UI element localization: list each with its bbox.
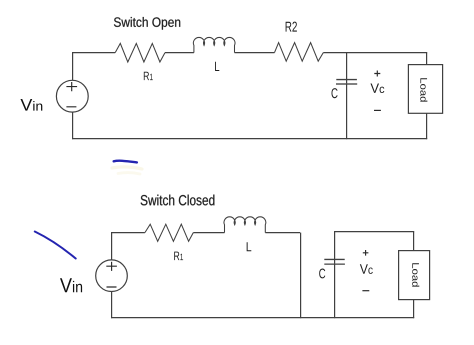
label R1 (bottom): [174, 252, 183, 261]
capacitor C (top): [336, 80, 357, 84]
wire: load bottom to rail (bottom): [413, 300, 415, 319]
inductor L (top): [193, 37, 235, 52]
plus sign Vc (bottom): [363, 250, 369, 256]
wire: L to R2 (top): [235, 52, 275, 54]
blue pen dash: [114, 161, 137, 163]
label Vin (bottom): [60, 278, 82, 292]
wire: corner down to load top (top): [426, 53, 428, 65]
wire: closed-switch branch down to rail (bottom): [300, 233, 302, 319]
wire: loop right down to load top (bottom): [413, 232, 415, 251]
label "Switch Open": [114, 17, 180, 30]
wire: node down through capacitor (top): [346, 53, 348, 85]
wire: capacitor bottom to rail (bottom): [334, 264, 336, 319]
wire: bottom rail (top circuit): [72, 138, 427, 140]
load box (top): [408, 65, 442, 114]
label C (top): [331, 88, 337, 98]
wire: source top to R1 (top): [73, 53, 116, 81]
capacitor C (bottom): [324, 259, 345, 264]
wire: corner to R1 (bottom): [112, 233, 145, 260]
minus sign Vc (top): [374, 109, 381, 111]
wire: bottom rail (bottom circuit): [111, 317, 414, 319]
wire: capacitor up to loop top (bottom): [334, 232, 336, 265]
label Vin (top): [20, 99, 42, 111]
wire: R1 to L (bottom): [193, 232, 224, 234]
inductor L (bottom): [224, 217, 266, 233]
label Vc (top): [370, 84, 384, 94]
label C (bottom): [319, 269, 325, 279]
wire: source bottom to rail (bottom): [111, 292, 113, 319]
wire: load bottom to rail (top): [426, 113, 428, 139]
wire: L to right corner (bottom): [265, 232, 300, 234]
wire: loop top (bottom): [334, 231, 414, 233]
wire: R2 to top-right corner: [323, 52, 427, 54]
faint yellow smudge: [112, 167, 142, 174]
label R1 (top): [144, 72, 153, 80]
resistor R2 (top): [275, 43, 324, 62]
voltage source Vin (bottom): [96, 260, 128, 292]
minus sign Vc (bottom): [362, 290, 369, 292]
wire: capacitor bottom to rail (top): [346, 84, 348, 140]
label L (bottom): [247, 242, 252, 251]
label "Switch Closed": [141, 195, 215, 206]
plus sign Vc (top): [374, 71, 380, 77]
resistor R1 (bottom): [145, 224, 193, 241]
load box (bottom): [399, 251, 430, 300]
voltage source Vin (top): [56, 80, 88, 112]
wire: source bottom to rail (top): [72, 112, 74, 139]
blue pen curve: [35, 232, 76, 259]
resistor R1 (top): [115, 43, 165, 62]
label R2: [286, 22, 297, 32]
wire: R1 to L (top): [165, 52, 194, 54]
label Vc (bottom): [360, 264, 373, 274]
label L (top): [215, 62, 219, 71]
